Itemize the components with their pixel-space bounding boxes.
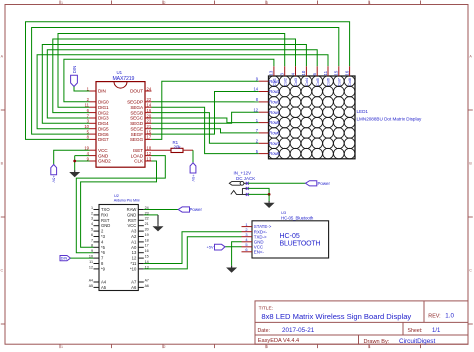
svg-text:8: 8	[91, 244, 93, 248]
op-amp U1 body (MAX7219 IC outline)	[96, 82, 145, 168]
svg-text:Col3: Col3	[293, 77, 298, 86]
svg-text:+5V: +5V	[52, 176, 57, 183]
svg-text:A6: A6	[131, 285, 137, 290]
LED matrix LED1 body frame	[269, 76, 356, 159]
svg-text:*9: *9	[101, 266, 106, 271]
U1 pin numbers	[84, 86, 152, 161]
svg-text:18: 18	[147, 146, 152, 151]
wire DIG0 to matrix column pin (net bundle)	[64, 59, 274, 102]
svg-text:GND: GND	[98, 153, 109, 158]
LED matrix dot grid 8x8	[269, 76, 355, 159]
svg-text:16: 16	[147, 108, 152, 113]
svg-text:DIN: DIN	[72, 66, 77, 73]
svg-text:SEGA: SEGA	[130, 105, 144, 110]
title block frame	[255, 301, 468, 344]
svg-text:Col2: Col2	[282, 77, 287, 86]
svg-text:12: 12	[253, 107, 258, 112]
wire DIG2 to matrix column pin (net bundle)	[53, 39, 296, 113]
svg-text:17: 17	[145, 244, 149, 248]
svg-text:DIN: DIN	[61, 257, 68, 261]
svg-text:20k: 20k	[174, 144, 182, 149]
svg-text:3: 3	[91, 217, 93, 221]
svg-text:GND: GND	[127, 212, 136, 217]
svg-text:11: 11	[85, 103, 90, 108]
svg-text:4: 4	[369, 345, 371, 349]
svg-text:Row8: Row8	[269, 151, 280, 156]
svg-text:+5V: +5V	[191, 175, 196, 182]
LED1 value label	[357, 116, 423, 121]
svg-text:13: 13	[269, 70, 274, 75]
svg-text:2: 2	[164, 345, 166, 349]
svg-text:A6: A6	[145, 284, 149, 288]
svg-text:RST: RST	[101, 218, 110, 223]
svg-text:B: B	[469, 162, 472, 166]
svg-text:LED1: LED1	[357, 109, 369, 114]
REV label	[428, 314, 440, 320]
svg-text:DC JACK: DC JACK	[236, 176, 255, 181]
svg-text:15: 15	[145, 255, 149, 259]
U3 value label HC-05_Bluetooth	[281, 216, 314, 221]
REV value 1.0	[445, 313, 454, 320]
IC U3 body (HC-05 Bluetooth)	[252, 221, 329, 258]
svg-text:6: 6	[245, 247, 247, 252]
svg-text:BLUETOOTH: BLUETOOTH	[280, 241, 321, 248]
svg-text:*11: *11	[130, 261, 137, 266]
svg-text:*6: *6	[101, 250, 106, 255]
svg-text:5: 5	[256, 149, 259, 154]
svg-text:9: 9	[256, 76, 259, 81]
svg-text:HC-05_Bluetooth: HC-05_Bluetooth	[281, 216, 314, 221]
net flag Power at DC jack	[306, 181, 331, 186]
svg-text:1: 1	[61, 345, 63, 349]
svg-text:*5: *5	[101, 245, 106, 250]
svg-text:12: 12	[132, 256, 137, 261]
ground symbol near U1	[69, 170, 80, 177]
svg-text:7: 7	[91, 238, 93, 242]
svg-text:DIG2: DIG2	[98, 110, 109, 115]
LED matrix row and column labels	[269, 77, 352, 156]
svg-text:SEGG: SEGG	[130, 137, 144, 142]
svg-text:15: 15	[334, 70, 339, 75]
svg-text:16: 16	[145, 249, 149, 253]
wire DIG5 to matrix column pin (net bundle)	[37, 55, 328, 129]
EasyEDA version label	[258, 338, 299, 344]
svg-text:4: 4	[290, 73, 295, 76]
net flag DIN at U1	[71, 66, 78, 87]
wire junction to ground	[268, 194, 270, 201]
svg-text:VCC: VCC	[127, 223, 136, 228]
svg-text:Col4: Col4	[304, 77, 309, 86]
svg-text:SEGB: SEGB	[130, 110, 143, 115]
U3 reference label	[281, 210, 287, 215]
svg-text:HC-05: HC-05	[280, 233, 300, 240]
svg-text:8: 8	[256, 97, 259, 102]
Drawn By label	[364, 339, 390, 345]
svg-text:12: 12	[147, 151, 152, 156]
svg-text:A7: A7	[145, 278, 149, 282]
wire DIN flag to U2 pin 7	[71, 257, 94, 259]
U3 big label HC-05	[280, 233, 300, 240]
DC jack pin cross marks	[246, 182, 249, 196]
svg-text:2: 2	[164, 1, 166, 5]
svg-text:A4: A4	[89, 278, 93, 282]
svg-text:6: 6	[91, 233, 93, 237]
svg-text:GND2: GND2	[98, 159, 111, 164]
svg-text:Col5: Col5	[315, 77, 320, 86]
svg-text:10: 10	[84, 124, 89, 129]
svg-text:TITLE:: TITLE:	[259, 305, 273, 311]
Sheet label	[408, 328, 423, 334]
svg-text:13: 13	[132, 250, 137, 255]
svg-text:A: A	[1, 55, 4, 59]
svg-text:12: 12	[89, 265, 93, 269]
svg-text:C: C	[0, 269, 3, 273]
wire SEGDP to Row3	[152, 101, 259, 103]
svg-text:Col7: Col7	[336, 77, 341, 86]
svg-text:CircuitDigest: CircuitDigest	[399, 338, 435, 345]
svg-text:A: A	[469, 55, 472, 59]
wire DIG4 to matrix column pin (net bundle)	[42, 45, 306, 124]
net flag DIN at U2	[60, 256, 71, 261]
U2 value label Arduino Pro Mini	[114, 199, 140, 203]
svg-text:DIG4: DIG4	[98, 121, 109, 126]
svg-text:1.0: 1.0	[445, 313, 454, 320]
wire SEGD to Row4	[152, 112, 259, 123]
svg-text:Row5: Row5	[269, 120, 280, 125]
svg-text:TXO: TXO	[101, 207, 110, 212]
svg-text:Row2: Row2	[269, 89, 280, 94]
svg-text:11: 11	[323, 70, 328, 75]
svg-text:DIG1: DIG1	[98, 105, 109, 110]
svg-text:A3: A3	[131, 229, 137, 234]
svg-text:MAX7219: MAX7219	[113, 76, 135, 82]
svg-text:14: 14	[147, 103, 152, 108]
svg-text:16: 16	[344, 70, 349, 75]
net flag Power at U2 RAW	[178, 207, 202, 212]
svg-text:Row4: Row4	[269, 110, 280, 115]
svg-text:19: 19	[145, 233, 149, 237]
svg-text:DIG6: DIG6	[98, 132, 109, 137]
svg-text:A0: A0	[131, 245, 137, 250]
svg-text:Col8: Col8	[347, 77, 352, 86]
svg-text:RST: RST	[128, 218, 137, 223]
svg-text:20: 20	[145, 228, 149, 232]
svg-text:SEGDP: SEGDP	[127, 100, 143, 105]
Date label	[258, 328, 270, 334]
svg-text:DIN: DIN	[98, 89, 106, 94]
wire CLK to U2 pin 5	[81, 161, 157, 247]
power flag +5V at R1	[190, 163, 196, 182]
U1 value label MAX7219	[113, 76, 135, 82]
svg-text:1/1: 1/1	[432, 328, 441, 334]
svg-text:21: 21	[145, 222, 149, 226]
wire DIN flag to U1 DIN pin	[74, 87, 90, 92]
svg-text:7: 7	[256, 128, 259, 133]
svg-text:10: 10	[301, 70, 306, 75]
svg-text:DIG3: DIG3	[98, 116, 109, 121]
ground symbol near U3	[226, 266, 237, 273]
wire SEGA to Row8	[152, 107, 259, 153]
svg-text:11: 11	[89, 260, 93, 264]
connector J1 DC jack symbol	[229, 181, 248, 194]
wire DC jack tip to Power flag	[248, 182, 306, 184]
svg-text:18: 18	[145, 238, 149, 242]
Date value	[282, 327, 315, 334]
LED matrix pin numbers	[253, 70, 349, 154]
svg-text:SEGF: SEGF	[131, 132, 144, 137]
wire DIG6 to matrix column pin (net bundle)	[32, 28, 339, 135]
svg-text:REV:: REV:	[428, 314, 440, 320]
svg-text:SEGC: SEGC	[130, 116, 144, 121]
svg-text:GND: GND	[101, 223, 110, 228]
svg-text:SEGD: SEGD	[130, 121, 144, 126]
svg-text:A1: A1	[131, 239, 137, 244]
wire U2 GND to ground	[144, 215, 158, 225]
wire SEGC to Row5	[152, 118, 259, 123]
junction dot DC jack ground	[268, 193, 271, 196]
wire DIG1 to matrix column pin (net bundle)	[58, 34, 285, 108]
IC U2 body (Arduino Pro Mini)	[99, 205, 138, 291]
svg-text:RAW: RAW	[127, 207, 137, 212]
svg-text:15: 15	[147, 129, 152, 134]
svg-text:U2: U2	[114, 193, 119, 198]
svg-text:Power: Power	[318, 181, 331, 186]
svg-text:A5: A5	[101, 285, 107, 290]
svg-text:23: 23	[147, 119, 152, 124]
svg-text:Row6: Row6	[269, 131, 280, 136]
svg-text:17: 17	[147, 135, 152, 140]
svg-text:B: B	[1, 162, 4, 166]
svg-text:U3: U3	[281, 210, 287, 215]
svg-text:24: 24	[147, 86, 152, 91]
svg-text:SEGE: SEGE	[130, 126, 143, 131]
svg-text:Drawn By:: Drawn By:	[364, 339, 390, 345]
wire U2 RAW to Power flag	[144, 209, 178, 211]
U1 pin name labels	[98, 89, 144, 164]
wire ISET to R1	[152, 149, 172, 151]
svg-text:U1: U1	[117, 70, 123, 75]
U3 pin numbers	[245, 222, 248, 252]
title text	[261, 312, 411, 321]
svg-text:Col1: Col1	[272, 77, 277, 86]
title block TITLE label	[259, 305, 273, 311]
svg-text:EasyEDA V4.4.4: EasyEDA V4.4.4	[258, 338, 299, 344]
wire SEGE to Row6	[152, 129, 259, 133]
svg-text:20: 20	[147, 113, 152, 118]
ground symbol near DC jack	[264, 201, 275, 208]
svg-text:DIG0: DIG0	[98, 100, 109, 105]
U2 pin numbers	[89, 206, 149, 288]
Sheet value	[432, 328, 441, 334]
svg-text:Arduino Pro Mini: Arduino Pro Mini	[114, 199, 140, 203]
svg-text:8x8 LED Matrix Wireless Sign B: 8x8 LED Matrix Wireless Sign Board Displ…	[261, 312, 411, 321]
svg-text:21: 21	[147, 124, 152, 129]
R1 value label 20k	[174, 144, 182, 149]
U2 reference label	[114, 193, 119, 198]
svg-text:Date:: Date:	[258, 328, 270, 334]
wire DC jack ring to ground node	[248, 188, 269, 194]
svg-text:EN<-: EN<-	[254, 249, 265, 254]
svg-text:22: 22	[145, 217, 149, 221]
resistor R1	[171, 148, 183, 152]
svg-text:14: 14	[253, 87, 258, 92]
svg-text:3: 3	[280, 73, 285, 76]
wire U3 VCC to +5V flag	[225, 246, 242, 248]
junction dot GND net	[73, 160, 76, 163]
svg-text:4: 4	[369, 1, 371, 5]
svg-text:2017-05-21: 2017-05-21	[282, 327, 315, 334]
svg-text:CLK: CLK	[134, 159, 144, 164]
wire U3 GND to ground	[232, 242, 242, 266]
LED1 reference label	[357, 109, 369, 114]
wire LOAD to U2 pin 6	[76, 156, 165, 253]
wire DIG7 to matrix column pin (net bundle)	[26, 22, 350, 140]
ground symbol near U2	[153, 224, 164, 231]
U3 pin stubs	[242, 227, 253, 252]
svg-text:A5: A5	[89, 284, 93, 288]
svg-text:1: 1	[61, 1, 63, 5]
svg-text:3: 3	[266, 1, 268, 5]
wire R1 to +5V	[183, 150, 193, 163]
svg-text:C: C	[469, 269, 472, 273]
svg-text:*3: *3	[101, 234, 106, 239]
svg-text:DIG5: DIG5	[98, 126, 109, 131]
LED matrix pin stubs	[259, 66, 350, 153]
svg-text:*10: *10	[130, 266, 137, 271]
svg-text:DIG7: DIG7	[98, 137, 109, 142]
svg-text:Row3: Row3	[269, 100, 280, 105]
U1 pin stubs	[90, 91, 152, 161]
R1 reference label	[173, 140, 179, 145]
svg-text:+5V: +5V	[207, 245, 214, 249]
svg-text:6: 6	[312, 73, 317, 76]
svg-text:A7: A7	[131, 280, 137, 285]
U3 pin name labels	[254, 224, 272, 254]
svg-text:22: 22	[147, 97, 152, 102]
U2 pin name labels	[101, 207, 137, 290]
power flag +5V at U1 VCC	[51, 165, 57, 183]
svg-text:LMN2088BU Dot Matrix Display: LMN2088BU Dot Matrix Display	[357, 116, 423, 121]
svg-text:13: 13	[147, 156, 152, 161]
svg-text:2: 2	[91, 211, 93, 215]
U2 pin stubs	[94, 210, 144, 288]
svg-text:ISET: ISET	[133, 148, 143, 153]
wire SEGB to Row7	[152, 113, 259, 144]
power flag +5V at U3	[207, 244, 225, 250]
svg-text:Sheet:: Sheet:	[408, 328, 423, 334]
wire U2 pin 11 to HC-05 RXD	[144, 232, 242, 264]
U3 big label BLUETOOTH	[280, 241, 321, 248]
svg-text:2: 2	[256, 139, 259, 144]
svg-text:4: 4	[91, 222, 93, 226]
svg-text:LOAD: LOAD	[131, 153, 144, 158]
wire SEGG to Row1	[152, 81, 259, 139]
svg-text:A2: A2	[131, 234, 137, 239]
svg-text:Power: Power	[190, 207, 203, 212]
svg-text:3: 3	[266, 345, 268, 349]
svg-text:9: 9	[91, 249, 93, 253]
svg-text:DOUT: DOUT	[130, 89, 143, 94]
wire DIG3 to matrix column pin (net bundle)	[47, 50, 317, 118]
wire U1 GND GND2 to ground	[75, 156, 90, 171]
svg-text:VCC: VCC	[98, 148, 108, 153]
Drawn By value CircuitDigest	[399, 338, 435, 345]
svg-text:A4: A4	[101, 280, 107, 285]
svg-text:1: 1	[256, 118, 259, 123]
svg-text:Col6: Col6	[326, 77, 331, 86]
U1 reference label	[117, 70, 123, 75]
svg-text:Row7: Row7	[269, 141, 280, 146]
wire SEGF to Row2	[152, 92, 259, 135]
wire U2 pin 10 to HC-05 TXD	[144, 237, 242, 269]
DC jack labels	[234, 171, 256, 181]
wire U1 VCC to +5V	[54, 150, 90, 164]
svg-text:1: 1	[91, 206, 93, 210]
svg-text:RXI: RXI	[101, 212, 108, 217]
svg-text:5: 5	[91, 228, 93, 232]
